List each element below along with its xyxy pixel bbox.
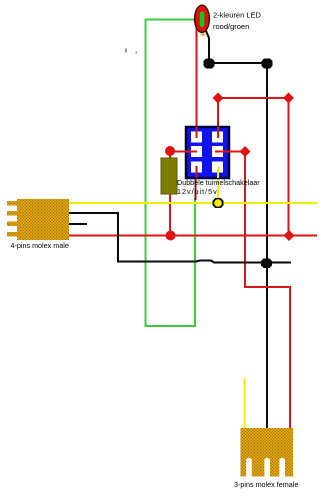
wire: red from resistor bottom to red bus — [169, 194, 171, 236]
wire: red jumper top horizontal y=98 — [218, 97, 289, 99]
resistor R1 (olive block) — [161, 158, 177, 194]
slot 3 — [279, 458, 285, 477]
wire: yellow horizontal bus y=203 — [69, 202, 317, 204]
wire: black lower horizontal continuation to x=291 — [196, 261, 291, 263]
svg-text:rood/groen: rood/groen — [213, 22, 249, 31]
molex J2: 3-pins molex female body — [241, 428, 294, 477]
node: red junction (288,98) — [283, 93, 294, 104]
wire: yellow from 3-pin female up (floating end) — [244, 378, 246, 428]
node: red junction (218,98) — [213, 93, 224, 104]
svg-text:4-pins molex male: 4-pins molex male — [11, 241, 69, 250]
wire: green loop from switch output around to LED anode — [146, 20, 198, 327]
wire: red vertical from node (288,98) down to red bus — [288, 98, 290, 236]
pin pad top-right — [212, 132, 223, 143]
wire: yellow slot lead in bottom-right pad — [217, 167, 219, 179]
wire: red from node (170,151) into switch mid-left pad — [170, 151, 197, 153]
LED D1: 2-colour LED rood/groen — [195, 5, 210, 35]
pin pad mid-right — [212, 146, 223, 157]
svg-text:12v/uit/5v: 12v/uit/5v — [177, 187, 218, 196]
svg-text:2-kleuren LED: 2-kleuren LED — [213, 11, 262, 20]
pin 1 — [7, 201, 17, 206]
wire: red LED anode lead down into switch top-left pad — [196, 28, 198, 138]
switch S1: dubbele tuimelschakelaar body — [186, 127, 229, 178]
wire: black horizontal between node A and node B — [209, 62, 267, 64]
svg-text:3-pins molex female: 3-pins molex female — [234, 480, 298, 489]
node: red junction (170,151) — [165, 146, 175, 156]
stray mark 1 — [125, 49, 127, 53]
node: black junction B — [262, 59, 273, 69]
wire: red slot lead into top-left pad — [196, 127, 198, 138]
wire: black vertical bus from node B down to 3-pin female — [266, 63, 268, 428]
stray mark 2 — [136, 52, 138, 54]
wire: maroon from switch bottom-left down to green wire — [195, 178, 197, 200]
pin 2 — [7, 211, 17, 216]
wire: red from node (218,98) into switch top-right pad — [217, 98, 219, 138]
slot 2 — [264, 458, 270, 477]
wire: black stub from molex pin 3 — [69, 223, 87, 225]
wire: black wire from molex pin 2 going right then down — [69, 213, 197, 262]
node: yellow junction (218,203) — [213, 198, 224, 208]
pin pad top-left — [191, 132, 202, 143]
svg-text:Dubbele tuimelschakelaar: Dubbele tuimelschakelaar — [177, 178, 260, 187]
wire: red from switch mid-right pad to node (245,151) — [215, 151, 245, 153]
pin pad bottom-left — [191, 162, 202, 173]
wire: black LED cathode lead bending down to node A — [204, 26, 209, 63]
node: red junction (245,151) — [240, 146, 251, 157]
slot 1 — [246, 458, 252, 477]
pin pad bottom-right — [212, 162, 223, 173]
wire: yellow from switch bottom-right pad down to yellow node — [217, 167, 219, 204]
pin pad mid-left — [191, 146, 202, 157]
wire: red from node (170,151) into resistor top — [169, 152, 171, 161]
molex J1: 4-pins molex male body — [7, 199, 69, 240]
node: black junction on lower bus — [261, 259, 272, 269]
pin 4 — [7, 232, 17, 237]
wire: red slot lead into top-right pad — [217, 127, 219, 138]
wire: red from switch right-mid node down, right, down to 3-pin female — [245, 152, 290, 429]
body — [17, 199, 69, 240]
node: black junction A — [204, 59, 215, 69]
node: red junction (289,235) — [284, 230, 295, 241]
node: red junction (170,235) — [166, 231, 176, 241]
wire: red slot lead in bottom-left pad — [196, 166, 198, 178]
wire: red horizontal bus y=235 — [69, 235, 317, 237]
pin 3 — [7, 222, 17, 227]
